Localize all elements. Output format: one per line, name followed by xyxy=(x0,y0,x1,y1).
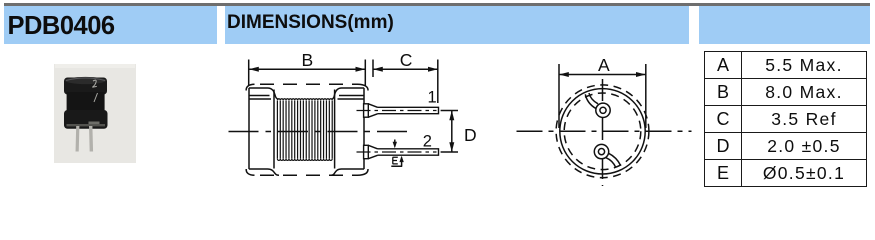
svg-text:1: 1 xyxy=(428,88,437,106)
svg-text:2: 2 xyxy=(423,133,432,151)
svg-text:D: D xyxy=(464,125,477,145)
svg-text:B: B xyxy=(302,50,314,70)
svg-text:C: C xyxy=(400,50,413,70)
svg-text:A: A xyxy=(598,55,610,75)
